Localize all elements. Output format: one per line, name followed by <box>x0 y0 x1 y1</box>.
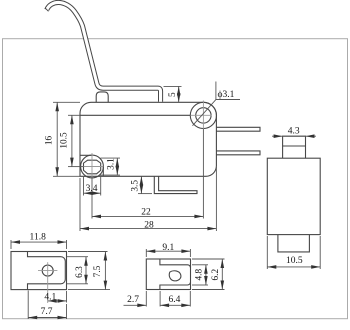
svg-text:10.5: 10.5 <box>60 132 70 149</box>
leader phi3.1 <box>193 100 241 126</box>
side base block <box>278 235 310 252</box>
svg-text:ϕ3.1: ϕ3.1 <box>218 90 235 100</box>
svg-text:10.5: 10.5 <box>286 256 303 266</box>
svg-text:7.5: 7.5 <box>93 265 103 277</box>
svg-text:6.3: 6.3 <box>75 266 85 278</box>
lever tip cut <box>45 8 48 11</box>
switch body outline <box>80 102 216 176</box>
side button <box>283 136 306 158</box>
dim 4.3 <box>272 135 316 137</box>
dim 3.4 <box>83 176 85 196</box>
svg-text:28: 28 <box>144 220 154 230</box>
svg-text:4.1: 4.1 <box>44 293 56 303</box>
svg-text:11.8: 11.8 <box>30 233 47 243</box>
side body <box>267 158 320 234</box>
dim 4.1 <box>66 291 68 303</box>
dim 6.3 / 7.5 ext <box>67 256 89 258</box>
svg-text:9.1: 9.1 <box>162 243 174 253</box>
svg-text:16: 16 <box>45 136 55 146</box>
dim 10.5 ext <box>68 114 80 116</box>
left boss circle <box>81 155 104 178</box>
dim 3.1 <box>101 157 121 159</box>
dim 6.4 <box>159 291 161 307</box>
dim 28 ext <box>79 178 81 231</box>
svg-text:7.7: 7.7 <box>41 307 53 317</box>
left boss tangent edges <box>80 154 92 156</box>
svg-text:6.2: 6.2 <box>211 269 221 281</box>
dim 2.7 <box>145 291 147 307</box>
dim 22 ext <box>91 177 93 219</box>
dim 5 <box>164 85 182 87</box>
pivot post <box>96 92 108 102</box>
svg-text:3.5: 3.5 <box>130 180 140 192</box>
svg-text:3.4: 3.4 <box>86 184 98 194</box>
dim 6.2 <box>192 258 225 260</box>
terminal pin 2 <box>216 151 260 155</box>
svg-text:2.7: 2.7 <box>127 295 139 305</box>
dim 3.5 <box>138 193 152 195</box>
svg-text:4.8: 4.8 <box>195 269 205 281</box>
svg-text:3.1: 3.1 <box>107 158 117 170</box>
svg-text:6.4: 6.4 <box>168 295 180 305</box>
corner boss circle (top right) <box>190 102 216 128</box>
dim 16 ext <box>53 101 80 103</box>
terminal L bottom <box>154 176 197 193</box>
body seam line <box>80 114 190 116</box>
svg-text:5: 5 <box>168 92 178 97</box>
octagon hole bottom-left <box>84 160 101 174</box>
dim 7.7 <box>27 291 29 320</box>
center lines <box>84 101 212 178</box>
terminal pin 1 <box>216 127 260 131</box>
hole top-right <box>196 108 211 123</box>
svg-text:22: 22 <box>141 208 151 218</box>
svg-text:4.3: 4.3 <box>288 126 300 136</box>
lever arm <box>47 2 161 101</box>
dim 9.1 <box>145 249 147 257</box>
dim 4.8 <box>192 264 208 266</box>
dim 11.8 <box>10 240 12 249</box>
dim 10.5 side ext <box>266 236 268 269</box>
